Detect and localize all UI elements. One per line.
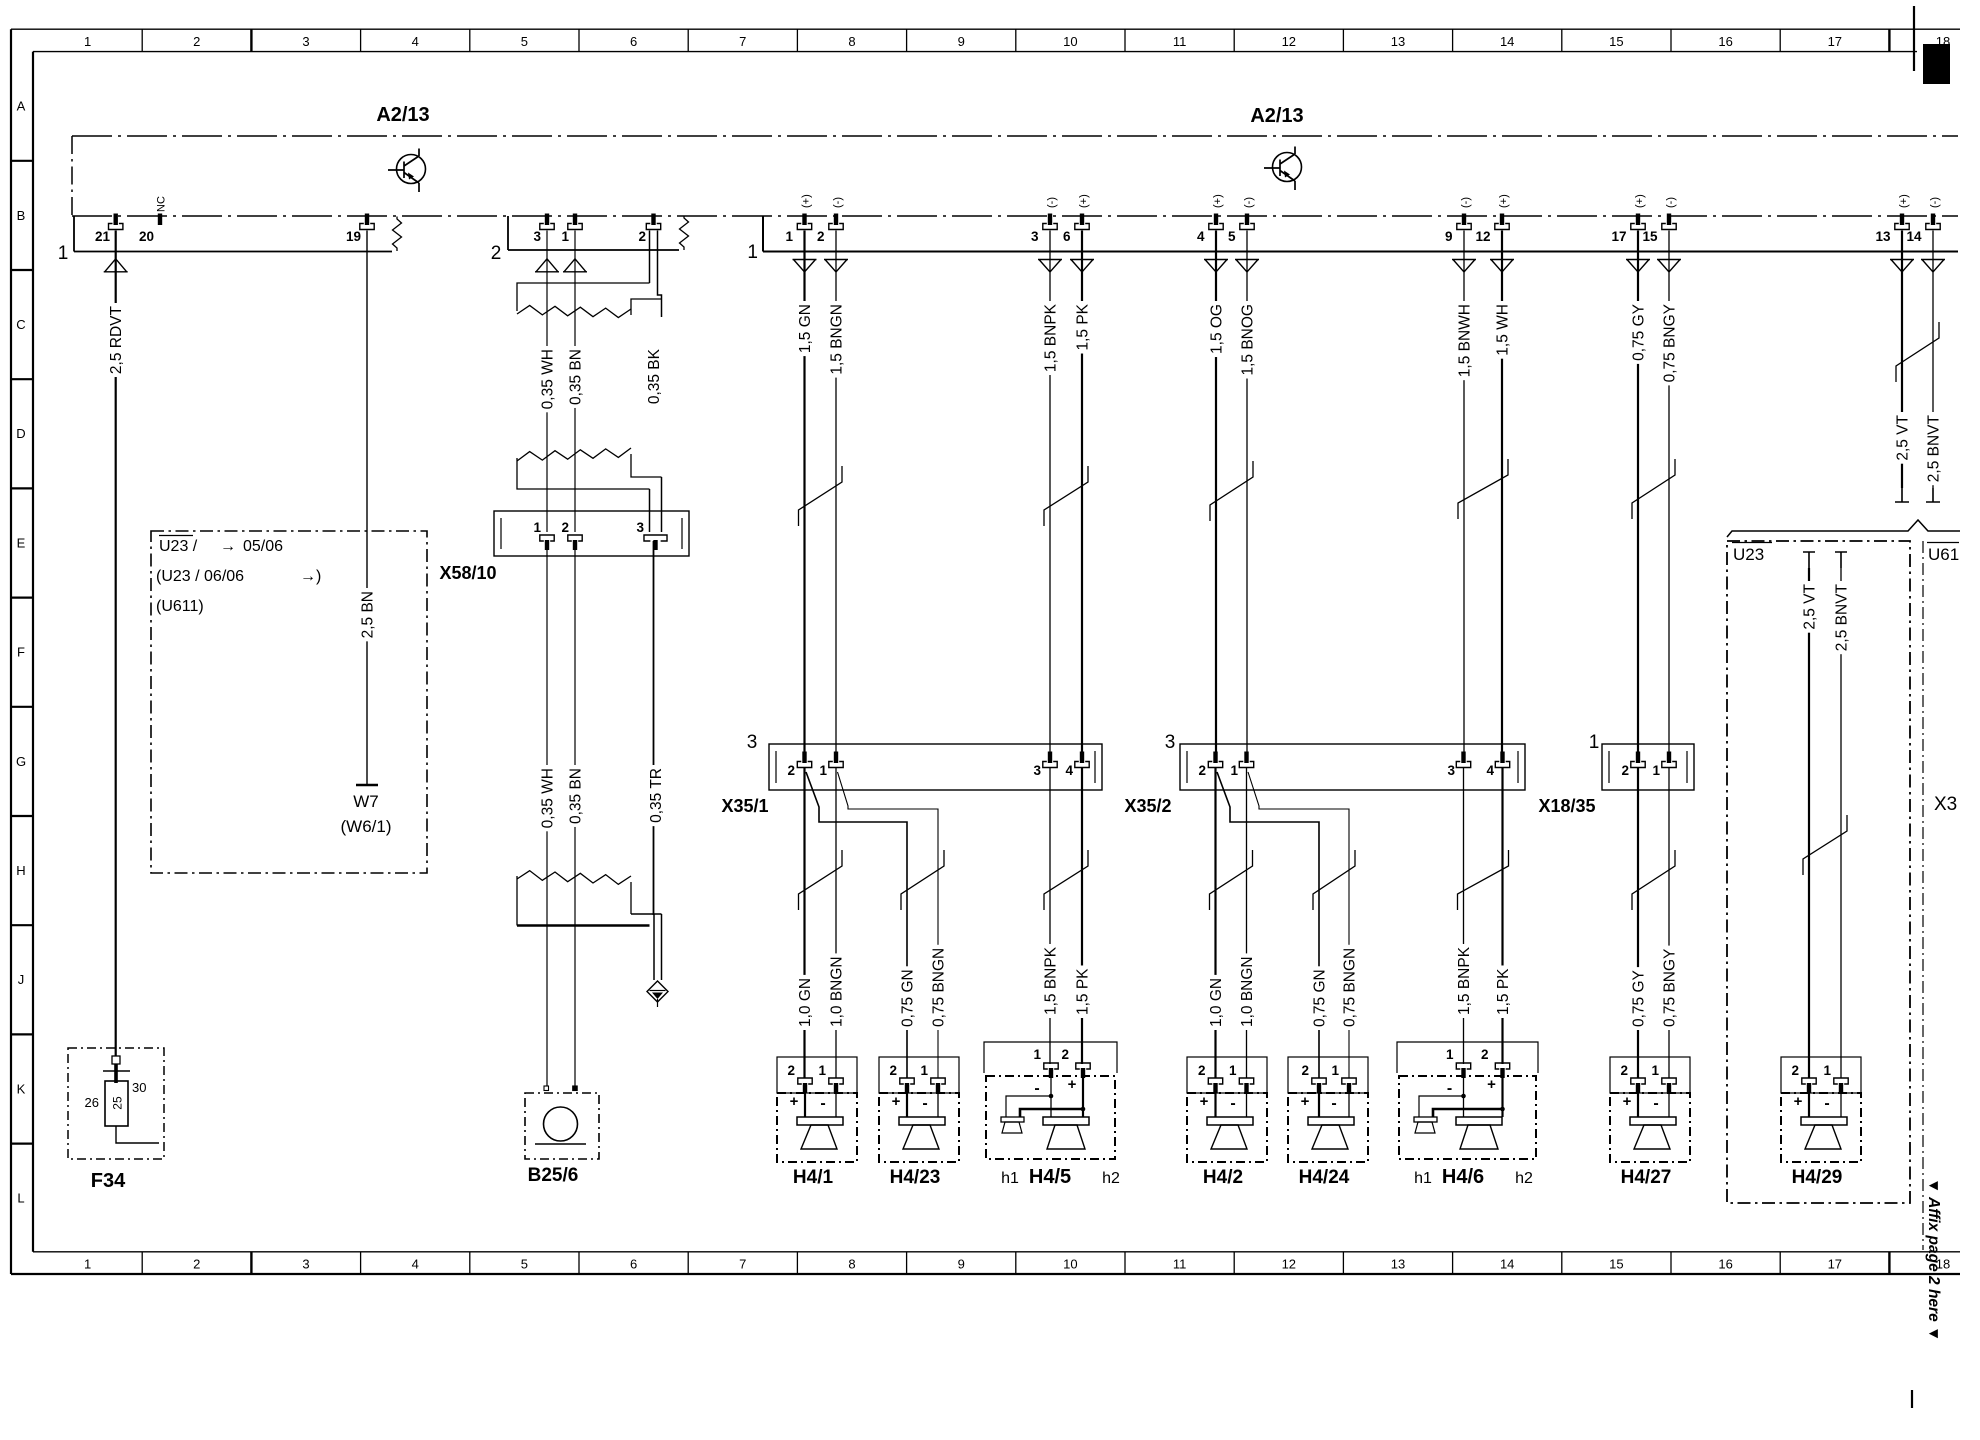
signal arrows up on microphone wires: [535, 259, 559, 272]
svg-text:(+): (+): [1498, 194, 1510, 208]
svg-text:h2: h2: [1515, 1170, 1533, 1187]
twisted pair marks below X35/1: [799, 850, 843, 910]
speaker H4/6 housing: [1397, 1042, 1538, 1073]
svg-text:0,75 BNGN: 0,75 BNGN: [930, 948, 947, 1027]
wire 1,5 PK to H4/5: [1081, 768, 1083, 1064]
wire 1,5 BNWH: [1463, 231, 1465, 755]
svg-text:26: 26: [85, 1095, 99, 1110]
svg-text:1: 1: [1823, 1063, 1831, 1078]
svg-text:12: 12: [1282, 34, 1296, 49]
svg-text:2: 2: [193, 1257, 200, 1272]
branch wire 0,75 GN to H4/23: [806, 772, 907, 1078]
svg-text:-: -: [1447, 1080, 1452, 1097]
svg-text:2: 2: [491, 243, 502, 264]
svg-text:-: -: [922, 1095, 927, 1112]
speaker H4/1 wires to voice coil: [804, 1084, 806, 1117]
svg-text:(+): (+): [1898, 194, 1910, 208]
svg-text:2: 2: [1061, 1047, 1069, 1062]
speaker H4/27 housing: [1610, 1057, 1690, 1093]
control unit A2/13 boundary: [72, 136, 1958, 216]
svg-text:3: 3: [636, 520, 644, 535]
speaker H4/24 symbol: [1308, 1117, 1354, 1125]
speaker H4/6 tweeter symbol: [1414, 1117, 1437, 1122]
svg-text:2: 2: [638, 229, 646, 244]
svg-text:(+): (+): [1078, 194, 1090, 208]
code text U23 05/06: [159, 535, 193, 537]
connector X58/10 box: [494, 511, 689, 556]
svg-text:4: 4: [412, 34, 419, 49]
svg-text:-: -: [820, 1095, 825, 1112]
svg-text:→: →: [220, 538, 236, 555]
svg-text:2: 2: [889, 1063, 897, 1078]
shield drain into X58/10: [649, 489, 651, 532]
svg-text:0,35 BN: 0,35 BN: [567, 768, 584, 824]
svg-text:1: 1: [1331, 1063, 1339, 1078]
svg-text:0,35 WH: 0,35 WH: [539, 768, 556, 828]
svg-text:21: 21: [95, 229, 111, 244]
svg-text:25: 25: [111, 1096, 125, 1110]
svg-text:0,75 BNGN: 0,75 BNGN: [1341, 948, 1358, 1027]
shield envelope lower: [517, 871, 631, 885]
svg-text:6: 6: [1063, 229, 1071, 244]
svg-text:3: 3: [1033, 763, 1041, 778]
svg-text:1,5 OG: 1,5 OG: [1208, 304, 1225, 354]
shield envelope above X58/10: [517, 448, 631, 461]
svg-text:1: 1: [1651, 1063, 1659, 1078]
svg-text:+: +: [1794, 1093, 1803, 1110]
wire 0,35 WH lower: [546, 541, 548, 1086]
transistor symbol left: [388, 149, 426, 193]
wire 1,5 WH: [1501, 231, 1503, 755]
svg-text:-: -: [1653, 1095, 1658, 1112]
signal arrow down pin 13: [1890, 260, 1914, 273]
ground W7: [356, 784, 378, 786]
svg-text:1,5 WH: 1,5 WH: [1494, 304, 1511, 356]
svg-text:-: -: [1034, 1080, 1039, 1097]
resistor (termination) in connector 2: [680, 217, 689, 251]
svg-text:0,75 GY: 0,75 GY: [1630, 304, 1647, 361]
svg-text:05/06: 05/06: [243, 538, 283, 555]
svg-text:1,5 BNOG: 1,5 BNOG: [1239, 304, 1256, 376]
svg-text:5: 5: [521, 34, 528, 49]
svg-text:L: L: [17, 1191, 24, 1206]
svg-text:12: 12: [1282, 1257, 1296, 1272]
speaker H4/23 housing: [879, 1057, 959, 1093]
svg-text:X3: X3: [1934, 794, 1957, 815]
svg-text:1: 1: [561, 229, 569, 244]
wire end 2,5 VT: [1895, 488, 1909, 502]
svg-text:h1: h1: [1001, 1170, 1019, 1187]
svg-text:(-): (-): [832, 197, 844, 208]
signal arrow down pin 5: [1235, 260, 1259, 273]
speaker H4/24 housing: [1288, 1057, 1368, 1093]
svg-text:16: 16: [1718, 34, 1732, 49]
fuse F34 terminal: [112, 1056, 120, 1064]
connector bracket 1 right: [763, 216, 1958, 252]
wire stub 2,5 VT inside U23: [1803, 552, 1815, 568]
svg-text:1: 1: [1230, 763, 1238, 778]
svg-text:10: 10: [1063, 1257, 1077, 1272]
svg-text:A2/13: A2/13: [376, 104, 429, 126]
svg-text:1: 1: [1446, 1047, 1454, 1062]
svg-text:1: 1: [1033, 1047, 1041, 1062]
speaker H4/23 wires to voice coil: [906, 1084, 908, 1117]
svg-text:h1: h1: [1414, 1170, 1432, 1187]
svg-text:→): →): [300, 568, 321, 585]
svg-text:1,5 BNWH: 1,5 BNWH: [1456, 304, 1473, 377]
wire 1,0 GN to H4/2: [1214, 768, 1216, 1078]
branch wire 0,75 BNGN to H4/24: [1248, 772, 1349, 1078]
svg-text:20: 20: [139, 229, 154, 244]
twisted pair marks below X18/35: [1632, 850, 1675, 910]
svg-text:H4/5: H4/5: [1029, 1166, 1071, 1188]
speaker H4/6 tweeter link wires: [1461, 1094, 1466, 1099]
svg-text:h2: h2: [1102, 1170, 1120, 1187]
wire 0,35 BN lower: [574, 541, 576, 1086]
svg-text:B: B: [17, 208, 26, 223]
svg-text:17: 17: [1828, 1257, 1842, 1272]
wire 1,5 BNPK to H4/5: [1049, 768, 1051, 1064]
svg-text:1,0 GN: 1,0 GN: [1208, 978, 1225, 1027]
svg-text:+: +: [790, 1093, 799, 1110]
svg-text:0,35 BK: 0,35 BK: [646, 348, 663, 404]
svg-text:4: 4: [1065, 763, 1073, 778]
wire 1,5 PK: [1081, 231, 1083, 755]
svg-text:4: 4: [1486, 763, 1494, 778]
connector bracket 2: [508, 216, 679, 250]
svg-text:14: 14: [1500, 34, 1514, 49]
svg-text:U61: U61: [1928, 545, 1959, 564]
wire 1,5 BNGN: [835, 231, 837, 755]
wire 2,5 RDVT: [115, 231, 117, 1057]
svg-text:H4/29: H4/29: [1792, 1167, 1843, 1188]
svg-text:X58/10: X58/10: [439, 563, 496, 583]
svg-text:(-): (-): [1460, 197, 1472, 208]
svg-text:3: 3: [747, 732, 758, 753]
svg-text:(-): (-): [1929, 197, 1941, 208]
wire label 0,35 TR: [648, 765, 663, 826]
svg-text:2: 2: [787, 1063, 795, 1078]
svg-text:H4/2: H4/2: [1203, 1167, 1243, 1188]
code option box U23 left: [151, 531, 427, 873]
svg-text:15: 15: [1642, 229, 1658, 244]
wire 2,5 BN: [366, 231, 368, 786]
svg-text:4: 4: [412, 1257, 419, 1272]
wire label 0,35 BN lower: [568, 765, 583, 827]
page marker block: [1923, 44, 1950, 84]
svg-text:1: 1: [1589, 732, 1600, 753]
speaker H4/29 wires to voice coil: [1808, 1084, 1810, 1117]
wire label 0,35 BN: [568, 346, 583, 408]
svg-text:0,35 WH: 0,35 WH: [539, 349, 556, 409]
microphone B25/6 terminals: [544, 1086, 549, 1091]
speaker H4/29 symbol: [1801, 1117, 1847, 1125]
svg-text:0,75 BNGY: 0,75 BNGY: [1661, 304, 1678, 382]
svg-text:5: 5: [1228, 229, 1236, 244]
svg-text:11: 11: [1173, 34, 1187, 49]
svg-text:A: A: [17, 99, 26, 114]
svg-text:19: 19: [346, 229, 361, 244]
svg-text:1: 1: [747, 242, 758, 263]
speaker H4/5 tweeter symbol: [1001, 1117, 1024, 1122]
svg-text:X35/1: X35/1: [721, 796, 768, 816]
svg-text:1,5 BNPK: 1,5 BNPK: [1456, 946, 1473, 1015]
wire 2,5 VT: [1901, 231, 1903, 489]
svg-text:1: 1: [84, 1257, 91, 1272]
svg-text:1,0 GN: 1,0 GN: [797, 978, 814, 1027]
wire 0,35 BN upper: [574, 231, 576, 533]
speaker H4/23 symbol: [899, 1117, 945, 1125]
svg-text:X18/35: X18/35: [1538, 796, 1595, 816]
plug joint line with chevron: [1727, 520, 1960, 537]
svg-text:1: 1: [533, 520, 541, 535]
shield ground diamond: [647, 981, 668, 1002]
svg-text:15: 15: [1609, 34, 1623, 49]
svg-text:4: 4: [1197, 229, 1205, 244]
shield drain wire lower: [653, 541, 655, 915]
svg-text:30: 30: [132, 1080, 146, 1095]
wire 1,0 BNGN to H4/1: [835, 768, 837, 1078]
svg-text:2,5 BN: 2,5 BN: [359, 591, 376, 638]
signal arrow down pin 17: [1626, 260, 1650, 273]
svg-text:1: 1: [84, 34, 91, 49]
signal arrow up on RDVT wire: [104, 259, 128, 272]
wire 0,75 BNGY to H4/27: [1668, 768, 1670, 1078]
speaker H4/2 symbol: [1207, 1117, 1253, 1125]
svg-text:U23 /: U23 /: [159, 538, 198, 555]
svg-text:X35/2: X35/2: [1124, 796, 1171, 816]
svg-text:1,0 BNGN: 1,0 BNGN: [1239, 956, 1256, 1027]
speaker H4/5 housing: [984, 1042, 1117, 1073]
svg-text:14: 14: [1500, 1257, 1514, 1272]
svg-text:13: 13: [1391, 34, 1405, 49]
signal arrow down pin 4: [1204, 260, 1228, 273]
wire 1,5 GN: [803, 231, 805, 755]
speaker H4/2 housing: [1187, 1057, 1267, 1093]
connector bracket 1 left: [74, 216, 392, 252]
svg-text:16: 16: [1718, 1257, 1732, 1272]
svg-text:F: F: [17, 645, 25, 660]
wire 0,75 GY: [1637, 231, 1639, 755]
label U23: [1732, 542, 1772, 544]
wire stub 2,5 BNVT inside U23: [1835, 552, 1847, 568]
wire 1,5 BNPK to H4/6: [1463, 768, 1465, 1064]
svg-text:8: 8: [848, 1257, 855, 1272]
affix page note: [1925, 1178, 1942, 1341]
svg-text:H4/24: H4/24: [1299, 1167, 1350, 1188]
speaker H4/24 wires to voice coil: [1318, 1084, 1320, 1117]
shield drain wires upper: [649, 231, 651, 284]
speaker H4/1 symbol: [797, 1117, 843, 1125]
svg-text:+: +: [1301, 1093, 1310, 1110]
svg-text:1,5 BNPK: 1,5 BNPK: [1042, 946, 1059, 1015]
svg-text:7: 7: [739, 1257, 746, 1272]
svg-text:2,5 VT: 2,5 VT: [1894, 414, 1911, 460]
svg-text:2: 2: [1198, 763, 1206, 778]
svg-text:3: 3: [302, 34, 309, 49]
svg-text:E: E: [17, 535, 26, 550]
svg-text:(+): (+): [1634, 194, 1646, 208]
svg-text:-: -: [1331, 1095, 1336, 1112]
svg-text:1: 1: [819, 763, 827, 778]
svg-text:7: 7: [739, 34, 746, 49]
signal arrow down pin 1: [793, 260, 817, 273]
svg-text:H4/23: H4/23: [890, 1167, 941, 1188]
svg-text:(+): (+): [1212, 194, 1224, 208]
svg-text:1: 1: [785, 229, 793, 244]
shield envelope upper: [517, 283, 650, 311]
svg-text:6: 6: [630, 1257, 637, 1272]
svg-text:8: 8: [848, 34, 855, 49]
branch wire 0,75 GN to H4/24: [1217, 772, 1319, 1078]
transistor symbol right: [1264, 147, 1302, 191]
speaker H4/2 wires to voice coil: [1214, 1084, 1216, 1117]
svg-text:G: G: [16, 754, 26, 769]
svg-text:W7: W7: [353, 792, 379, 811]
svg-text:3: 3: [302, 1257, 309, 1272]
svg-text:+: +: [1623, 1093, 1632, 1110]
wire label 0,35 WH: [540, 346, 555, 412]
svg-text:+: +: [1068, 1076, 1077, 1093]
svg-text:2: 2: [561, 520, 569, 535]
svg-text:9: 9: [1445, 229, 1453, 244]
svg-text:2: 2: [1621, 763, 1629, 778]
microphone B25/6 box: [525, 1093, 599, 1159]
svg-text:(U611): (U611): [156, 598, 204, 615]
fuse F34 box: [68, 1048, 164, 1159]
svg-text:3: 3: [533, 229, 541, 244]
wire label 0,35 BK: [646, 346, 661, 407]
signal arrow down pin 9: [1452, 260, 1476, 273]
svg-text:+: +: [892, 1093, 901, 1110]
svg-text:3: 3: [1031, 229, 1039, 244]
svg-text:12: 12: [1475, 229, 1490, 244]
svg-text:0,75 BNGY: 0,75 BNGY: [1661, 949, 1678, 1027]
svg-text:H4/1: H4/1: [793, 1167, 834, 1188]
svg-text:17: 17: [1828, 34, 1842, 49]
registration mark top right: [1913, 6, 1915, 71]
svg-text:2,5 BNVT: 2,5 BNVT: [1925, 414, 1942, 482]
svg-text:U23: U23: [1733, 545, 1764, 564]
svg-text:1,0 BNGN: 1,0 BNGN: [828, 956, 845, 1027]
fuse F34 element: [105, 1081, 128, 1126]
svg-text:▼ Affix page 2 here ▼: ▼ Affix page 2 here ▼: [1925, 1178, 1942, 1341]
svg-text:6: 6: [630, 34, 637, 49]
wire 1,0 GN to H4/1: [803, 768, 805, 1078]
svg-text:1: 1: [818, 1063, 826, 1078]
wire label 0,35 WH lower: [540, 765, 555, 831]
speaker H4/6 wires: [1463, 1069, 1465, 1117]
svg-text:17: 17: [1611, 229, 1626, 244]
svg-text:H: H: [16, 863, 25, 878]
svg-text:(W6/1): (W6/1): [341, 817, 392, 836]
svg-text:-: -: [1824, 1095, 1829, 1112]
twisted pair marks H4/29: [1803, 815, 1847, 875]
svg-text:2,5 VT: 2,5 VT: [1801, 583, 1818, 629]
boundary line U61 box: [1922, 541, 1924, 1250]
svg-text:-: -: [1230, 1095, 1235, 1112]
svg-text:(-): (-): [1046, 197, 1058, 208]
svg-text:9: 9: [958, 1257, 965, 1272]
svg-text:2: 2: [1620, 1063, 1628, 1078]
svg-text:5: 5: [521, 1257, 528, 1272]
svg-text:1: 1: [1229, 1063, 1237, 1078]
twisted pair marks below X35/2: [1210, 850, 1253, 910]
svg-text:H4/6: H4/6: [1442, 1166, 1484, 1188]
svg-text:A2/13: A2/13: [1250, 105, 1303, 127]
label U61: [1927, 542, 1959, 544]
svg-text:+: +: [1200, 1093, 1209, 1110]
svg-text:(-): (-): [1243, 197, 1255, 208]
svg-text:13: 13: [1875, 229, 1891, 244]
wire 1,5 BNPK: [1049, 231, 1051, 755]
registration mark bottom right: [1911, 1390, 1913, 1408]
wire 1,5 PK to H4/6: [1501, 768, 1503, 1064]
svg-text:(+): (+): [801, 194, 813, 208]
signal arrow down pin 12: [1490, 260, 1514, 273]
svg-text:0,75 GY: 0,75 GY: [1630, 970, 1647, 1027]
svg-text:J: J: [18, 972, 25, 987]
speaker H4/5 tweeter link wires: [1049, 1094, 1054, 1099]
svg-text:0,75 GN: 0,75 GN: [899, 969, 916, 1027]
resistor (termination) in connector 1: [393, 217, 402, 252]
wire 1,5 OG: [1215, 231, 1217, 755]
svg-text:2: 2: [787, 763, 795, 778]
svg-text:0,75 GN: 0,75 GN: [1311, 969, 1328, 1027]
svg-text:K: K: [17, 1081, 26, 1096]
twisted pair marks upper: [799, 466, 843, 526]
signal arrow down pin 3: [1038, 260, 1062, 273]
svg-text:3: 3: [1447, 763, 1455, 778]
svg-text:1: 1: [1652, 763, 1660, 778]
fuse F34 output wire: [116, 1126, 159, 1143]
svg-text:9: 9: [958, 34, 965, 49]
svg-text:C: C: [16, 317, 25, 332]
speaker H4/29 housing: [1781, 1057, 1861, 1093]
svg-text:14: 14: [1906, 229, 1922, 244]
code option box U23 right: [1727, 541, 1910, 1203]
svg-text:1,5 PK: 1,5 PK: [1074, 303, 1091, 350]
signal arrow down pin 6: [1070, 260, 1094, 273]
branch wire 0,75 BNGN to H4/23: [838, 772, 939, 1078]
svg-text:1: 1: [920, 1063, 928, 1078]
svg-text:2: 2: [1481, 1047, 1489, 1062]
svg-text:0,35 TR: 0,35 TR: [648, 768, 665, 823]
svg-text:(U23 / 06/06: (U23 / 06/06: [156, 568, 244, 585]
svg-text:3: 3: [1165, 732, 1176, 753]
svg-text:1,5 BNGN: 1,5 BNGN: [828, 304, 845, 375]
svg-text:2,5 RDVT: 2,5 RDVT: [108, 305, 125, 374]
svg-text:1: 1: [58, 243, 69, 264]
svg-text:2,5 BNVT: 2,5 BNVT: [1833, 583, 1850, 651]
wire 0,75 BNGY: [1668, 231, 1670, 755]
svg-text:1,5 PK: 1,5 PK: [1495, 968, 1512, 1015]
speaker H4/6 woofer symbol: [1456, 1117, 1502, 1125]
wire 1,0 BNGN to H4/2: [1246, 768, 1248, 1078]
wire 2,5 BNVT: [1932, 231, 1934, 489]
svg-text:2: 2: [1198, 1063, 1206, 1078]
svg-text:1,5 GN: 1,5 GN: [797, 304, 814, 353]
speaker H4/5 wires: [1050, 1069, 1052, 1117]
svg-text:0,35 BN: 0,35 BN: [567, 349, 584, 405]
svg-text:2: 2: [1301, 1063, 1309, 1078]
svg-text:NC: NC: [156, 196, 168, 212]
svg-text:15: 15: [1609, 1257, 1623, 1272]
svg-text:1,5 PK: 1,5 PK: [1074, 968, 1091, 1015]
svg-text:(-): (-): [1665, 197, 1677, 208]
signal arrow down pin 2: [824, 260, 848, 273]
svg-text:2: 2: [817, 229, 825, 244]
